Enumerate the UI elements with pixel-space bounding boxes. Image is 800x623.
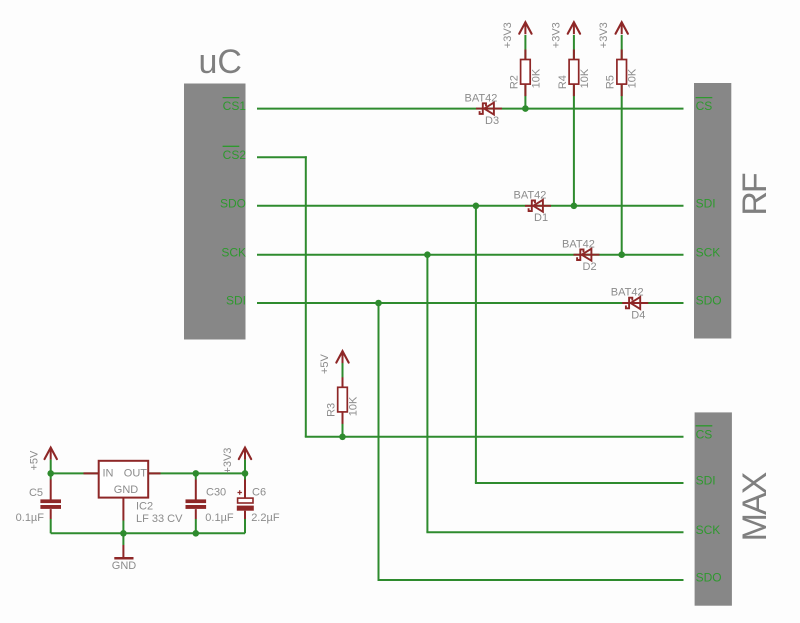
wire R4 pullup column — [573, 35, 575, 206]
wire IC2 GND to rail — [122, 521, 124, 534]
IC2 pin stub GND — [122, 497, 124, 521]
MAX pin label SDI — [696, 474, 716, 488]
designator C6 — [252, 487, 266, 499]
value LF 33 CV — [136, 513, 183, 525]
wire net SDO to MAX SDI — [475, 482, 684, 484]
junction +5V/C5 — [47, 470, 54, 477]
label R3 — [326, 403, 338, 417]
svg-text:+5V: +5V — [319, 354, 331, 375]
label BAT42 of D2 — [562, 238, 595, 250]
MAX pin label SDO — [696, 571, 722, 585]
svg-text:0.1µF: 0.1µF — [205, 512, 234, 524]
wire net CS1 uC-RF — [257, 108, 684, 110]
svg-text:10K: 10K — [627, 68, 639, 88]
svg-text:uC: uC — [199, 43, 242, 81]
RF block title — [736, 173, 774, 216]
capacitor C6 — [237, 490, 254, 510]
RF pin label SDI — [696, 196, 716, 210]
wire net CS2 vertical — [305, 156, 307, 437]
svg-text:2.2µF: 2.2µF — [251, 512, 280, 524]
svg-text:+5V: +5V — [28, 450, 40, 471]
junction SDI col — [375, 300, 382, 307]
junction R3/CS2 — [339, 434, 346, 441]
supply +3V3 arrow at C6 — [239, 448, 251, 460]
IC uC block body — [184, 84, 246, 340]
svg-text:10K: 10K — [579, 68, 591, 88]
svg-text:C30: C30 — [206, 487, 226, 499]
value 0.1uF of C5 — [16, 512, 45, 524]
svg-text:C5: C5 — [29, 487, 43, 499]
svg-text:C6: C6 — [252, 487, 266, 499]
svg-text:BAT42: BAT42 — [611, 287, 644, 299]
svg-text:SCK: SCK — [696, 245, 721, 259]
IC MAX block body — [695, 412, 732, 605]
wire C6 top lead — [244, 473, 246, 498]
supply +3V3 arrow above R5 — [616, 22, 628, 34]
wire R3 pullup column — [342, 363, 344, 437]
value 10K of R2 — [530, 68, 542, 88]
RF pin label SDO — [696, 294, 722, 308]
svg-text:CS: CS — [696, 99, 713, 113]
wire net SCK to MAX SCK — [426, 531, 683, 533]
junction R2/CS1 — [522, 105, 529, 112]
wire net SDI to MAX SDO — [378, 579, 684, 581]
uC pin label CS1 — [223, 98, 247, 114]
label GND — [112, 560, 137, 572]
wire C6 bottom lead — [244, 511, 246, 534]
MAX block title — [736, 472, 774, 541]
supply +3V3 arrow above R2 — [519, 22, 531, 34]
diode D1 BAT42 — [525, 200, 551, 212]
svg-text:R2: R2 — [508, 75, 520, 89]
wire net SDO vertical to MAX — [475, 206, 477, 483]
label BAT42 of D1 — [514, 190, 547, 202]
IC2 pin stub OUT — [147, 472, 160, 474]
ground symbol — [114, 545, 133, 558]
label R2 — [508, 75, 520, 89]
designator C5 — [29, 487, 43, 499]
svg-text:R4: R4 — [557, 75, 569, 89]
voltage regulator IC2 body — [99, 461, 149, 498]
value 0.1uF of C30 — [205, 512, 234, 524]
junction R5/SCK — [618, 251, 625, 258]
junction C30 bottom — [193, 530, 200, 537]
IC RF block body — [694, 83, 731, 339]
diode D3 BAT42 — [476, 103, 502, 115]
svg-text:D1: D1 — [534, 212, 548, 224]
svg-text:10K: 10K — [530, 68, 542, 88]
svg-text:CS2: CS2 — [223, 148, 247, 162]
junction SDO col — [473, 203, 480, 210]
wire net SCK vertical to MAX — [426, 255, 428, 533]
junction R4/SDO — [571, 203, 578, 210]
svg-text:CS: CS — [696, 427, 713, 441]
svg-text:+3V3: +3V3 — [502, 22, 514, 48]
svg-text:SDO: SDO — [220, 196, 246, 210]
svg-text:+3V3: +3V3 — [550, 22, 562, 48]
svg-text:10K: 10K — [347, 396, 359, 416]
svg-text:RF: RF — [736, 173, 774, 216]
svg-text:BAT42: BAT42 — [562, 238, 595, 250]
supply +3V3 label at C6 — [222, 448, 234, 474]
uC pin label SDI — [226, 294, 246, 308]
svg-text:SDI: SDI — [696, 474, 716, 488]
svg-text:OUT: OUT — [124, 468, 148, 480]
svg-text:GND: GND — [114, 484, 139, 496]
svg-text:IN: IN — [103, 468, 114, 480]
svg-text:D4: D4 — [631, 309, 645, 321]
svg-text:SCK: SCK — [221, 245, 246, 259]
supply +5V label at C5 — [28, 450, 40, 471]
svg-text:D2: D2 — [583, 261, 597, 273]
value 10K of R4 — [579, 68, 591, 88]
wire C30 bottom lead — [195, 509, 197, 533]
wire C5 top lead — [50, 473, 52, 499]
svg-text:SCK: SCK — [696, 523, 721, 537]
svg-text:R5: R5 — [605, 75, 617, 89]
designator D2 — [583, 261, 597, 273]
label BAT42 of D4 — [611, 287, 644, 299]
wire +3V3 arrow to rail — [244, 460, 246, 474]
label R5 — [605, 75, 617, 89]
svg-text:GND: GND — [112, 560, 137, 572]
svg-text:SDI: SDI — [226, 294, 246, 308]
designator D4 — [631, 309, 645, 321]
svg-text:MAX: MAX — [736, 472, 774, 541]
svg-text:SDI: SDI — [696, 196, 716, 210]
supply +3V3 label of R4 — [550, 22, 562, 48]
wire +5V rail top — [51, 472, 245, 474]
IC2 pin stub IN — [84, 472, 100, 474]
uC block title — [199, 43, 242, 81]
resistor R3 — [338, 377, 348, 424]
designator IC2 — [136, 501, 153, 513]
supply +5V arrow at C5 — [45, 448, 57, 460]
wire GND rail bottom — [51, 532, 245, 534]
junction GND rail — [120, 530, 127, 537]
uC pin label SDO — [220, 196, 246, 210]
svg-text:SDO: SDO — [696, 571, 722, 585]
uC pin label CS2 — [223, 146, 247, 162]
wire net SCK uC-RF SCK — [257, 254, 684, 256]
IC2 pin name IN — [103, 468, 114, 480]
MAX pin label CS — [696, 426, 713, 442]
svg-text:CS1: CS1 — [223, 99, 247, 113]
wire R5 pullup column — [621, 35, 623, 255]
designator D1 — [534, 212, 548, 224]
svg-text:+3V3: +3V3 — [222, 448, 234, 474]
RF pin label SCK — [696, 245, 721, 259]
wire net SDI vertical to MAX — [378, 303, 380, 580]
junction C30 top — [193, 470, 200, 477]
uC pin label SCK — [221, 245, 246, 259]
wire net CS2 from uC — [257, 156, 307, 158]
svg-text:D3: D3 — [485, 115, 499, 127]
RF pin label CS — [696, 98, 713, 114]
wire +5V arrow to rail — [50, 460, 52, 474]
svg-text:BAT42: BAT42 — [465, 92, 498, 104]
supply +3V3 arrow above R4 — [568, 22, 580, 34]
capacitor C5 — [40, 499, 61, 509]
wire net CS2 to MAX CS — [305, 436, 684, 438]
wire GND stub — [122, 533, 124, 545]
wire net SDO uC-RF SDI — [257, 205, 684, 207]
svg-text:+3V3: +3V3 — [598, 22, 610, 48]
diode D2 BAT42 — [574, 249, 600, 261]
capacitor C30 — [186, 499, 207, 509]
svg-text:0.1µF: 0.1µF — [16, 512, 45, 524]
IC2 pin name GND — [114, 484, 139, 496]
wire R2 pullup column — [524, 35, 526, 109]
value 10K of R5 — [627, 68, 639, 88]
supply +5V arrow above R3 — [336, 351, 348, 363]
junction SCK col — [424, 251, 431, 258]
svg-text:IC2: IC2 — [136, 501, 153, 513]
supply +3V3 label of R2 — [502, 22, 514, 48]
IC2 pin name OUT — [124, 468, 148, 480]
wire C5 bottom lead — [50, 509, 52, 533]
designator D3 — [485, 115, 499, 127]
wire C30 top lead — [195, 473, 197, 499]
resistor R5 — [617, 50, 627, 97]
supply +3V3 label of R5 — [598, 22, 610, 48]
value 2.2uF of C6 — [251, 512, 280, 524]
label R4 — [557, 75, 569, 89]
svg-text:R3: R3 — [326, 403, 338, 417]
label BAT42 of D3 — [465, 92, 498, 104]
value 10K of R3 — [347, 396, 359, 416]
junction C6 top — [242, 470, 249, 477]
designator C30 — [206, 487, 226, 499]
resistor R4 — [569, 50, 579, 97]
diode D4 BAT42 — [622, 297, 648, 309]
MAX pin label SCK — [696, 523, 721, 537]
supply +5V label of R3 — [319, 354, 331, 375]
svg-text:SDO: SDO — [696, 294, 722, 308]
svg-text:LF 33 CV: LF 33 CV — [136, 513, 183, 525]
resistor R2 — [521, 50, 531, 97]
wire net SDI uC-RF SDO — [257, 302, 684, 304]
svg-text:BAT42: BAT42 — [514, 190, 547, 202]
